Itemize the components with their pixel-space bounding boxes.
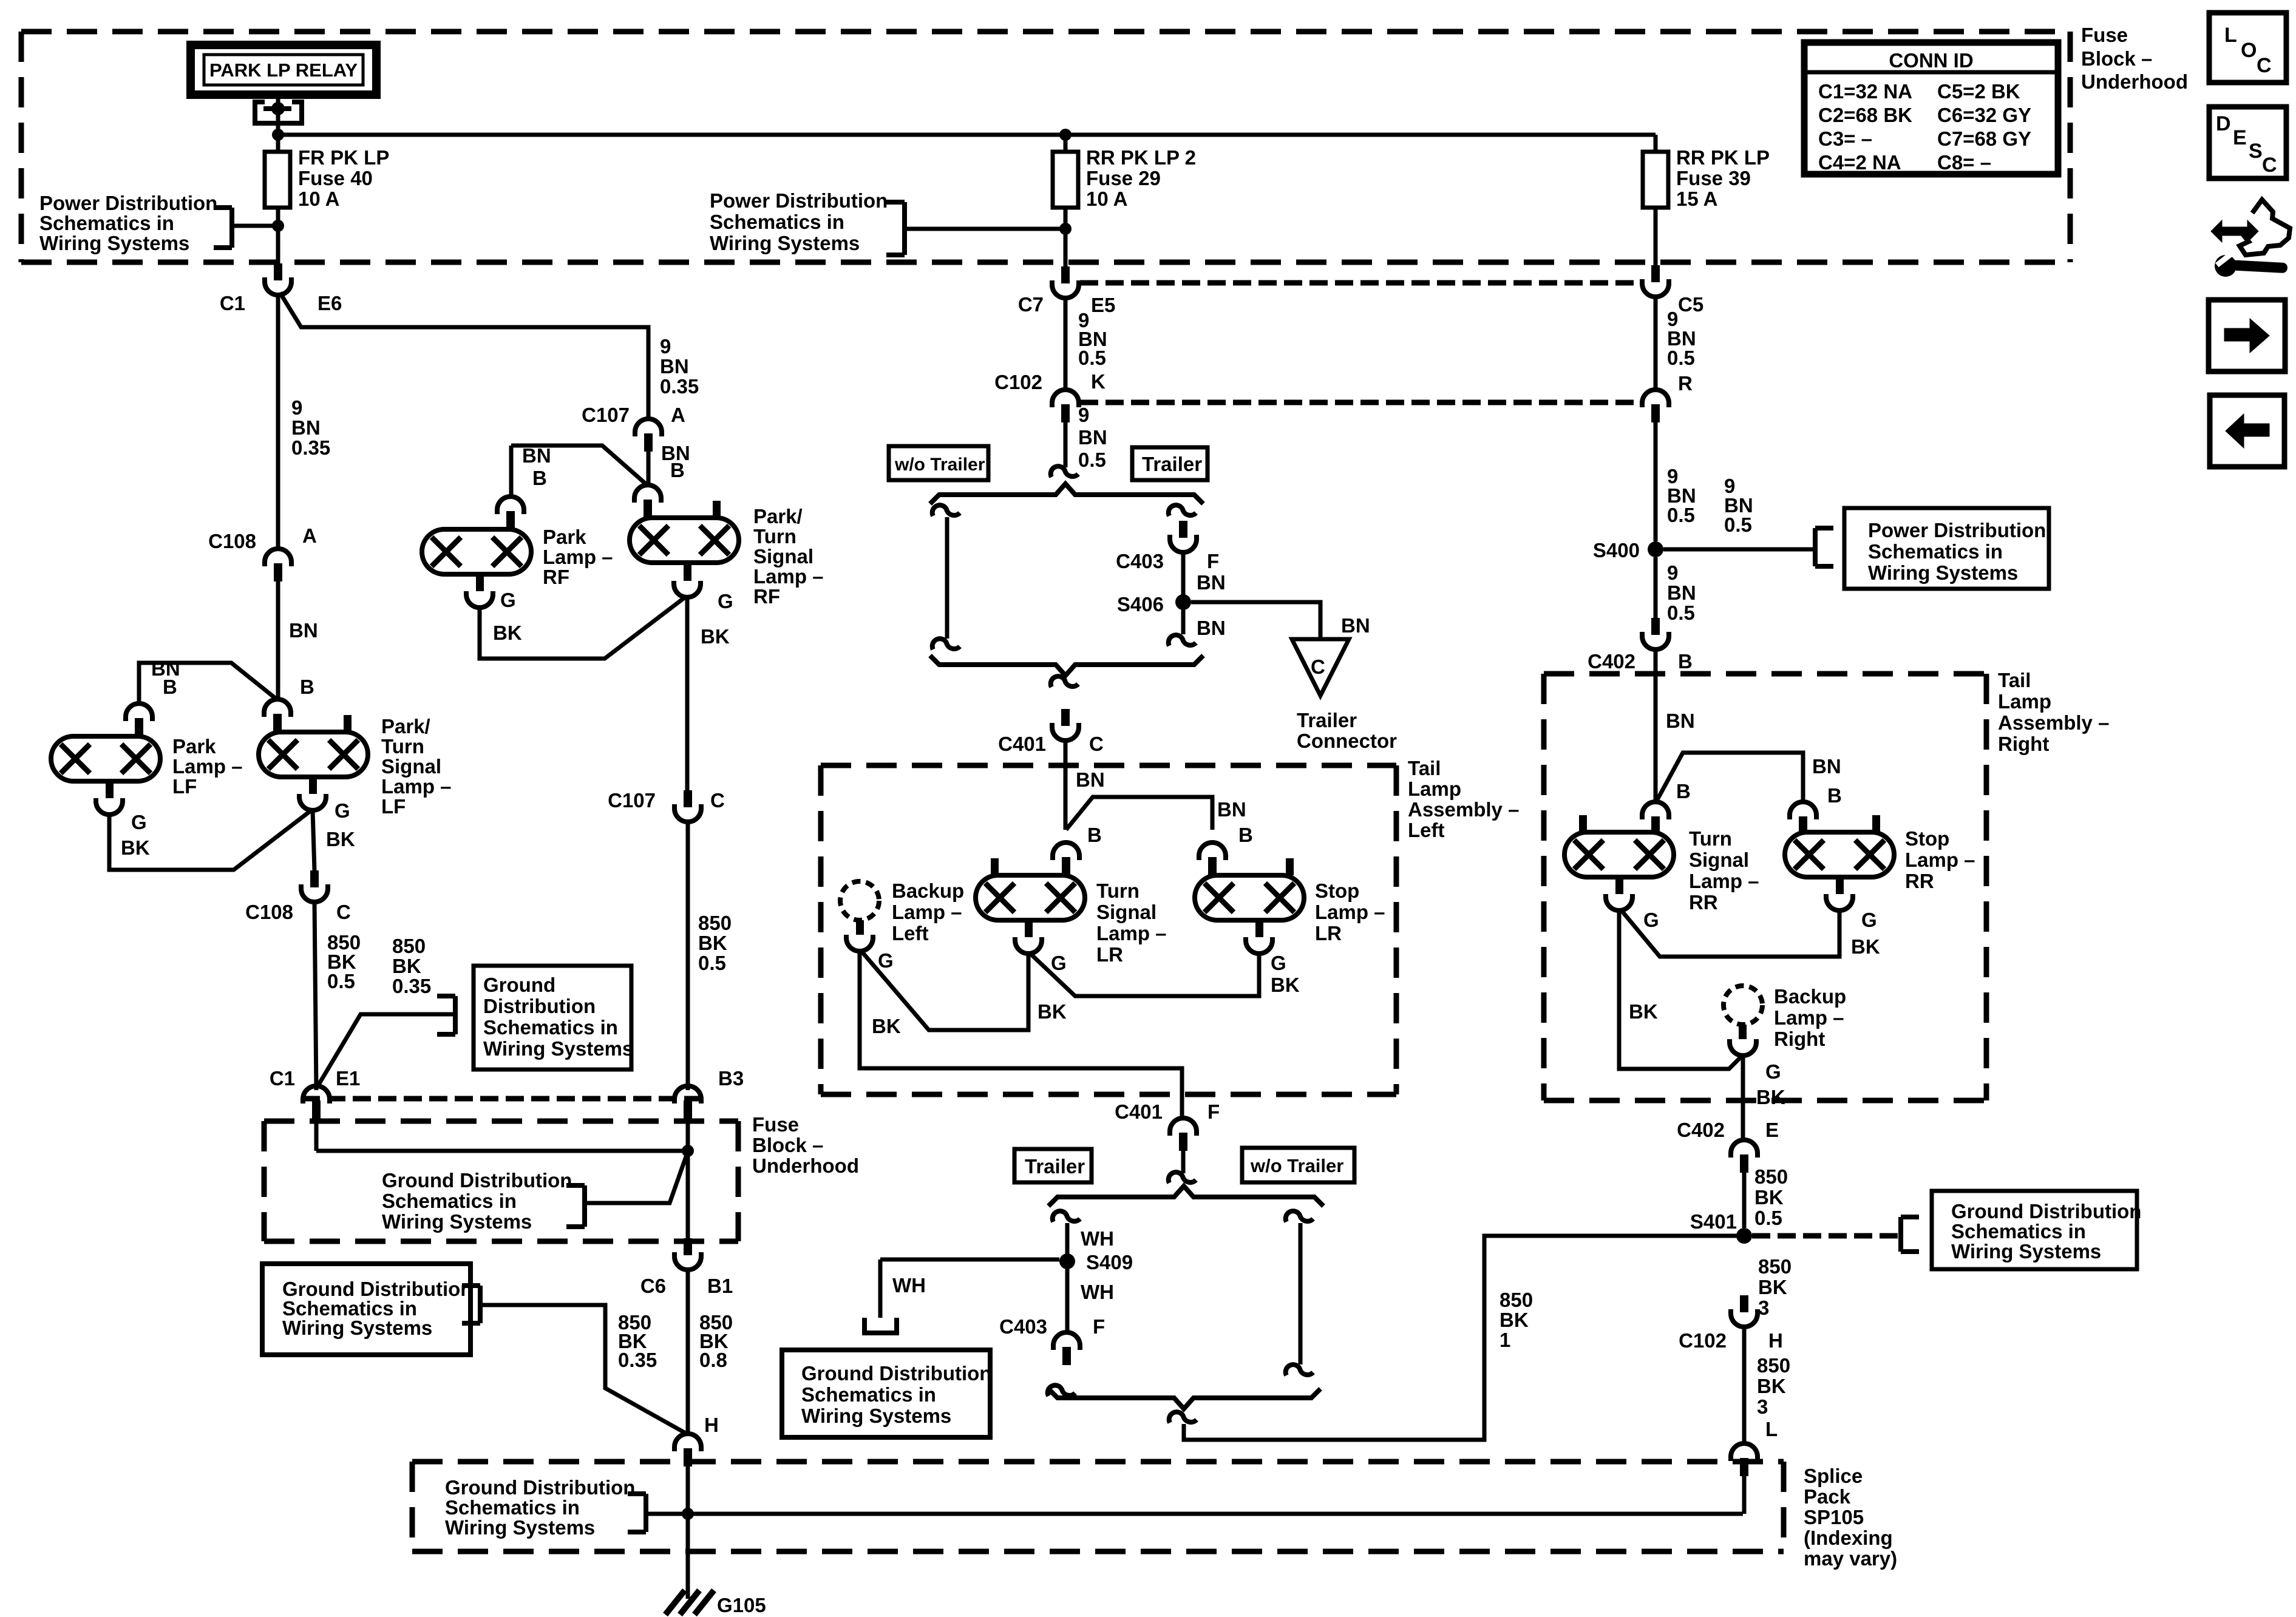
svg-text:LR: LR <box>1096 943 1123 966</box>
svg-text:Fuse: Fuse <box>2081 24 2128 46</box>
svg-text:R: R <box>1678 372 1693 395</box>
svg-text:Backup: Backup <box>892 880 964 902</box>
svg-text:10 A: 10 A <box>1086 188 1127 210</box>
svg-text:C2=68 BK: C2=68 BK <box>1818 104 1912 126</box>
svg-text:Assembly –: Assembly – <box>1408 798 1519 821</box>
svg-text:F: F <box>1093 1315 1105 1338</box>
svg-text:Wiring Systems: Wiring Systems <box>382 1210 532 1233</box>
svg-text:0.5: 0.5 <box>1667 602 1695 624</box>
svg-text:E: E <box>1765 1119 1779 1141</box>
svg-text:Power Distribution: Power Distribution <box>1868 519 2046 541</box>
svg-text:Schematics in: Schematics in <box>710 211 844 233</box>
svg-text:LR: LR <box>1315 922 1342 944</box>
svg-text:C4=2 NA: C4=2 NA <box>1818 151 1901 174</box>
svg-text:Park/: Park/ <box>381 715 430 737</box>
svg-text:Signal: Signal <box>1096 901 1156 923</box>
svg-text:15 A: 15 A <box>1676 188 1717 210</box>
svg-text:0.5: 0.5 <box>1078 347 1106 369</box>
svg-text:C: C <box>1089 733 1104 755</box>
svg-text:Schematics in: Schematics in <box>483 1016 618 1039</box>
svg-text:B: B <box>1676 780 1691 802</box>
svg-text:E5: E5 <box>1091 294 1115 316</box>
svg-text:C403: C403 <box>999 1315 1047 1338</box>
svg-text:C: C <box>2257 54 2272 77</box>
svg-text:0.35: 0.35 <box>618 1349 657 1371</box>
svg-text:SP105: SP105 <box>1804 1506 1864 1528</box>
svg-text:850: 850 <box>1754 1165 1788 1188</box>
svg-text:Lamp –: Lamp – <box>1315 901 1385 923</box>
svg-text:BK: BK <box>1757 1375 1786 1397</box>
svg-text:C6=32 GY: C6=32 GY <box>1937 104 2031 126</box>
svg-text:G: G <box>1643 909 1659 931</box>
svg-text:G: G <box>1271 952 1286 974</box>
svg-text:Lamp –: Lamp – <box>1774 1006 1844 1029</box>
svg-text:Underhood: Underhood <box>2081 70 2188 93</box>
svg-text:G: G <box>718 590 733 612</box>
svg-text:Stop: Stop <box>1315 880 1359 902</box>
svg-text:9: 9 <box>660 335 671 358</box>
svg-text:Schematics in: Schematics in <box>445 1496 580 1519</box>
svg-text:850: 850 <box>698 912 732 934</box>
svg-text:BK: BK <box>1629 1000 1658 1023</box>
svg-text:Turn: Turn <box>753 525 796 547</box>
svg-text:FR PK LP: FR PK LP <box>298 146 389 169</box>
svg-text:Wiring Systems: Wiring Systems <box>1868 561 2018 584</box>
svg-text:C8= –: C8= – <box>1937 151 1991 174</box>
svg-text:0.5: 0.5 <box>1667 347 1695 369</box>
svg-text:RR: RR <box>1689 891 1718 914</box>
svg-text:B: B <box>1678 650 1693 673</box>
svg-text:BK: BK <box>493 622 522 644</box>
svg-text:Connector: Connector <box>1297 730 1397 752</box>
svg-text:B: B <box>163 676 177 698</box>
svg-text:Turn: Turn <box>1096 880 1140 902</box>
svg-text:G: G <box>1861 909 1877 931</box>
svg-text:Turn: Turn <box>1689 827 1732 850</box>
svg-text:BK: BK <box>1851 935 1880 958</box>
svg-text:Trailer: Trailer <box>1297 709 1357 731</box>
svg-text:BK: BK <box>1754 1186 1784 1209</box>
svg-text:Lamp –: Lamp – <box>543 546 613 568</box>
svg-text:BN: BN <box>1812 755 1841 778</box>
svg-text:C7: C7 <box>1018 293 1044 316</box>
svg-text:G: G <box>131 811 147 833</box>
svg-text:BK: BK <box>1038 1000 1067 1023</box>
svg-text:Schematics in: Schematics in <box>39 212 174 234</box>
svg-text:C1=32 NA: C1=32 NA <box>1818 80 1912 103</box>
svg-text:BK: BK <box>1756 1086 1785 1108</box>
svg-text:BK: BK <box>121 836 150 859</box>
svg-text:RF: RF <box>753 585 780 608</box>
svg-text:Signal: Signal <box>381 755 441 778</box>
svg-text:3: 3 <box>1757 1395 1768 1418</box>
svg-text:Lamp –: Lamp – <box>381 775 452 798</box>
svg-text:Park: Park <box>172 735 216 758</box>
svg-text:C3= –: C3= – <box>1818 127 1872 150</box>
svg-text:BK: BK <box>1758 1276 1787 1298</box>
svg-text:0.5: 0.5 <box>327 970 355 992</box>
svg-text:0.5: 0.5 <box>1724 514 1752 536</box>
svg-text:C: C <box>1311 656 1325 678</box>
svg-text:S409: S409 <box>1086 1251 1133 1273</box>
svg-text:Power Distribution: Power Distribution <box>710 189 888 212</box>
svg-text:BK: BK <box>1500 1309 1529 1331</box>
svg-text:LF: LF <box>381 795 406 818</box>
svg-text:Signal: Signal <box>1689 849 1749 871</box>
svg-text:Ground Distribution: Ground Distribution <box>382 1169 572 1192</box>
svg-text:E1: E1 <box>336 1067 360 1090</box>
svg-text:BK: BK <box>872 1015 901 1037</box>
svg-text:BN: BN <box>1666 710 1695 732</box>
svg-text:WH: WH <box>892 1274 926 1297</box>
svg-text:BK: BK <box>701 625 730 648</box>
svg-text:850: 850 <box>1758 1255 1792 1278</box>
svg-text:BK: BK <box>1271 974 1300 996</box>
svg-text:BN: BN <box>1197 617 1226 639</box>
svg-text:BN: BN <box>1667 581 1696 604</box>
svg-text:L: L <box>1765 1418 1778 1440</box>
svg-text:(Indexing: (Indexing <box>1804 1527 1893 1549</box>
svg-text:Tail: Tail <box>1408 757 1441 779</box>
svg-text:Distribution: Distribution <box>483 995 596 1017</box>
svg-text:Ground: Ground <box>483 974 555 996</box>
svg-text:Schematics in: Schematics in <box>1951 1220 2086 1242</box>
svg-text:BK: BK <box>392 955 421 977</box>
svg-text:Wiring Systems: Wiring Systems <box>483 1037 633 1060</box>
svg-text:10 A: 10 A <box>298 188 339 210</box>
svg-text:Wiring Systems: Wiring Systems <box>1951 1240 2101 1263</box>
svg-text:9: 9 <box>1667 561 1678 584</box>
svg-text:B3: B3 <box>718 1067 744 1090</box>
svg-text:0.35: 0.35 <box>291 436 330 459</box>
svg-text:K: K <box>1091 370 1106 393</box>
svg-text:Power Distribution: Power Distribution <box>39 192 217 214</box>
svg-text:850: 850 <box>392 935 426 957</box>
svg-text:G: G <box>1765 1060 1781 1083</box>
svg-text:Lamp –: Lamp – <box>1905 849 1975 871</box>
svg-text:RR PK LP 2: RR PK LP 2 <box>1086 146 1196 169</box>
svg-text:BN: BN <box>522 444 551 467</box>
svg-text:C: C <box>710 789 725 812</box>
svg-text:Schematics in: Schematics in <box>1868 540 2003 563</box>
svg-text:Wiring Systems: Wiring Systems <box>710 232 860 254</box>
svg-text:S: S <box>2249 140 2263 163</box>
svg-text:O: O <box>2241 39 2257 62</box>
svg-text:BN: BN <box>1078 426 1107 449</box>
svg-text:Ground Distribution: Ground Distribution <box>445 1476 635 1499</box>
svg-text:850: 850 <box>1757 1354 1790 1377</box>
svg-text:BN: BN <box>1197 571 1226 594</box>
svg-text:Lamp –: Lamp – <box>753 565 824 588</box>
svg-text:G: G <box>500 589 516 611</box>
svg-text:Wiring Systems: Wiring Systems <box>39 232 189 254</box>
svg-text:PARK LP RELAY: PARK LP RELAY <box>209 59 358 81</box>
svg-text:BN: BN <box>289 619 318 642</box>
svg-text:Wiring Systems: Wiring Systems <box>801 1405 951 1427</box>
svg-text:0.5: 0.5 <box>1754 1207 1782 1229</box>
svg-text:E: E <box>2233 126 2247 149</box>
svg-text:WH: WH <box>1081 1281 1114 1303</box>
svg-text:BN: BN <box>1076 768 1105 791</box>
svg-text:B: B <box>1238 824 1253 846</box>
svg-text:B1: B1 <box>707 1275 733 1297</box>
svg-text:9: 9 <box>1078 404 1089 426</box>
svg-text:C108: C108 <box>245 901 293 923</box>
svg-text:H: H <box>704 1414 719 1436</box>
svg-text:Ground Distribution: Ground Distribution <box>1951 1200 2141 1222</box>
svg-text:RR PK LP: RR PK LP <box>1676 146 1770 169</box>
svg-text:Fuse 40: Fuse 40 <box>298 167 373 189</box>
svg-text:C1: C1 <box>220 292 245 314</box>
svg-text:B: B <box>1827 784 1842 807</box>
svg-text:B: B <box>670 459 685 481</box>
svg-text:C6: C6 <box>640 1275 666 1297</box>
svg-text:BN: BN <box>291 416 321 439</box>
svg-text:Lamp –: Lamp – <box>1096 922 1167 944</box>
svg-text:C5: C5 <box>1678 293 1703 316</box>
svg-text:Schematics in: Schematics in <box>801 1383 936 1406</box>
svg-text:E6: E6 <box>318 292 342 314</box>
svg-text:0.5: 0.5 <box>1667 504 1695 526</box>
svg-text:Assembly –: Assembly – <box>1998 711 2109 734</box>
svg-text:Underhood: Underhood <box>752 1154 859 1177</box>
svg-text:Park: Park <box>543 526 586 548</box>
svg-text:S400: S400 <box>1593 539 1640 561</box>
svg-text:Trailer: Trailer <box>1142 453 1202 475</box>
svg-text:may vary): may vary) <box>1804 1547 1897 1570</box>
svg-text:BK: BK <box>326 828 355 850</box>
svg-text:BN: BN <box>1217 798 1246 821</box>
svg-text:Lamp –: Lamp – <box>172 755 243 778</box>
svg-text:BK: BK <box>698 932 727 954</box>
svg-text:B: B <box>532 467 547 489</box>
svg-text:Fuse 29: Fuse 29 <box>1086 167 1161 189</box>
svg-text:B: B <box>300 676 314 698</box>
svg-text:C102: C102 <box>1679 1329 1727 1352</box>
svg-text:F: F <box>1207 1100 1220 1123</box>
svg-text:C5=2 BK: C5=2 BK <box>1937 80 2020 103</box>
svg-text:9: 9 <box>291 396 302 419</box>
svg-text:LF: LF <box>172 775 197 798</box>
svg-text:Block –: Block – <box>2081 47 2152 70</box>
svg-text:C1: C1 <box>270 1067 295 1090</box>
svg-text:Left: Left <box>1408 819 1445 841</box>
svg-text:Park/: Park/ <box>753 505 803 527</box>
svg-text:0.5: 0.5 <box>698 952 726 974</box>
svg-text:Lamp –: Lamp – <box>1689 870 1759 892</box>
svg-text:Ground Distribution: Ground Distribution <box>801 1362 991 1385</box>
svg-text:0.35: 0.35 <box>660 375 699 398</box>
svg-text:Right: Right <box>1998 733 2049 755</box>
svg-text:Fuse: Fuse <box>752 1113 799 1136</box>
svg-text:Trailer: Trailer <box>1025 1155 1085 1178</box>
svg-text:C: C <box>2262 154 2277 177</box>
svg-text:Wiring Systems: Wiring Systems <box>282 1317 432 1339</box>
svg-text:0.8: 0.8 <box>699 1349 727 1371</box>
svg-text:H: H <box>1768 1329 1783 1352</box>
svg-text:C107: C107 <box>608 789 656 812</box>
svg-text:BN: BN <box>1341 614 1370 637</box>
svg-text:S406: S406 <box>1117 593 1164 615</box>
svg-text:C403: C403 <box>1116 550 1164 572</box>
svg-text:Backup: Backup <box>1774 985 1846 1008</box>
svg-text:0.5: 0.5 <box>1078 449 1106 471</box>
svg-text:S401: S401 <box>1690 1210 1737 1233</box>
svg-text:C402: C402 <box>1588 650 1635 673</box>
svg-text:D: D <box>2216 112 2231 135</box>
svg-text:C402: C402 <box>1677 1119 1725 1141</box>
svg-text:Lamp –: Lamp – <box>892 901 962 923</box>
svg-text:G105: G105 <box>717 1594 766 1616</box>
svg-text:Wiring Systems: Wiring Systems <box>445 1516 595 1539</box>
svg-text:w/o Trailer: w/o Trailer <box>894 455 985 475</box>
svg-text:Lamp: Lamp <box>1408 778 1461 800</box>
svg-text:G: G <box>335 799 350 822</box>
svg-text:RR: RR <box>1905 870 1934 892</box>
svg-text:C7=68 GY: C7=68 GY <box>1937 127 2031 150</box>
svg-text:1: 1 <box>1500 1329 1510 1351</box>
svg-text:850: 850 <box>1500 1289 1533 1311</box>
svg-text:w/o Trailer: w/o Trailer <box>1250 1155 1343 1176</box>
svg-text:Lamp: Lamp <box>1998 690 2051 713</box>
svg-text:C401: C401 <box>998 733 1046 755</box>
svg-text:G: G <box>1051 952 1067 974</box>
svg-text:C107: C107 <box>582 404 630 426</box>
svg-text:C108: C108 <box>208 530 256 552</box>
svg-text:Signal: Signal <box>753 545 813 568</box>
svg-text:CONN ID: CONN ID <box>1889 49 1973 72</box>
svg-text:RF: RF <box>543 566 569 588</box>
svg-text:A: A <box>302 524 317 547</box>
svg-text:WH: WH <box>1081 1227 1114 1250</box>
svg-text:A: A <box>671 404 685 426</box>
svg-text:Pack: Pack <box>1804 1485 1851 1508</box>
svg-text:C: C <box>336 901 351 923</box>
svg-text:C401: C401 <box>1115 1100 1163 1123</box>
svg-text:Schematics in: Schematics in <box>382 1190 517 1212</box>
svg-text:B: B <box>1087 824 1102 846</box>
svg-text:F: F <box>1207 550 1219 572</box>
svg-text:Block –: Block – <box>752 1134 823 1156</box>
svg-text:BN: BN <box>660 355 689 378</box>
svg-text:Splice: Splice <box>1804 1465 1863 1487</box>
svg-text:Left: Left <box>892 922 929 944</box>
svg-text:Right: Right <box>1774 1028 1825 1050</box>
svg-text:Turn: Turn <box>381 735 424 758</box>
svg-text:Tail: Tail <box>1998 669 2031 691</box>
svg-text:0.35: 0.35 <box>392 975 431 997</box>
svg-text:Fuse 39: Fuse 39 <box>1676 167 1751 189</box>
svg-text:Stop: Stop <box>1905 827 1949 850</box>
svg-text:L: L <box>2224 24 2237 47</box>
svg-text:C102: C102 <box>994 371 1042 393</box>
svg-text:G: G <box>878 949 894 972</box>
